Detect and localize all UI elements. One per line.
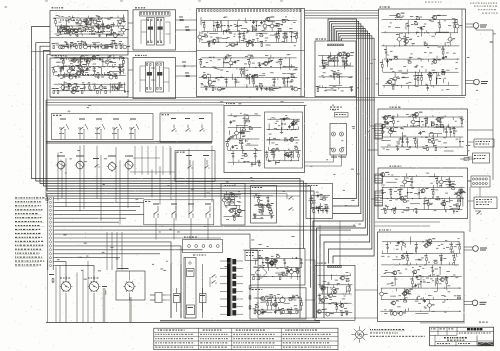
resistor R45 bbox=[208, 43, 210, 47]
resistor R162 bbox=[295, 271, 299, 273]
wire drop bbox=[61, 161, 63, 198]
transistor Q40 bbox=[211, 39, 216, 43]
switch box 'MONITOR' bbox=[175, 151, 215, 182]
transistor Q54 bbox=[454, 20, 459, 33]
resistor R175 bbox=[336, 303, 338, 312]
transistor Q100 bbox=[392, 311, 397, 316]
capacitor C88 bbox=[262, 310, 264, 314]
diode D6 bbox=[86, 58, 88, 67]
wire input run bbox=[55, 242, 171, 318]
wire bbox=[284, 302, 290, 304]
capacitor C61 bbox=[384, 117, 386, 127]
wire bbox=[255, 204, 265, 206]
resistor R167 bbox=[275, 298, 277, 310]
capacitor C76 bbox=[234, 212, 237, 216]
wire bbox=[402, 254, 404, 260]
wire bundle bbox=[328, 19, 357, 97]
wire bbox=[305, 260, 315, 265]
transistor Q5 bbox=[92, 18, 97, 26]
transistor Q19 bbox=[122, 45, 127, 49]
wire bbox=[151, 68, 155, 80]
resistor R170 bbox=[301, 298, 303, 310]
transistor Q3 bbox=[69, 26, 74, 34]
pcb board box U4 'P.C.B ASS'Y' (flat amp L/R) bbox=[197, 9, 305, 97]
pcb box U10 'P.C.B #0114' bbox=[221, 184, 245, 226]
resistor R65 bbox=[253, 77, 255, 87]
rail wire bbox=[381, 287, 461, 289]
transistor Q95 bbox=[339, 304, 344, 308]
capacitor C31 bbox=[234, 60, 237, 64]
diode D25 bbox=[293, 119, 295, 129]
resistor R104 bbox=[244, 155, 248, 157]
transistor Q36 bbox=[230, 43, 235, 48]
resistor R149 bbox=[311, 196, 313, 209]
capacitor C55 bbox=[283, 118, 286, 122]
rail wire bbox=[253, 276, 301, 278]
wire bbox=[468, 180, 472, 182]
capacitor C12 bbox=[97, 76, 99, 80]
wire feedback L1 bbox=[32, 27, 301, 319]
resistor R_link3 bbox=[185, 73, 189, 77]
wire bbox=[429, 132, 442, 134]
resistor R97 bbox=[291, 150, 293, 160]
resistor R174 bbox=[322, 285, 324, 294]
pcb box U13 (regulator) bbox=[315, 265, 355, 320]
wire bbox=[389, 14, 397, 16]
rail wire bbox=[381, 32, 458, 34]
wire bbox=[468, 130, 494, 180]
transistor Q69 bbox=[380, 124, 385, 128]
wire drop bbox=[100, 155, 102, 221]
wire bbox=[166, 295, 171, 300]
wire bbox=[231, 74, 233, 80]
capacitor C94 bbox=[293, 295, 296, 299]
resistor R52 bbox=[296, 32, 298, 43]
rail wire bbox=[382, 187, 465, 189]
wire bbox=[410, 125, 418, 127]
resistor R40 bbox=[114, 84, 116, 91]
resistor R156 bbox=[279, 277, 281, 281]
box SPEAKER SYSTEM bbox=[474, 197, 497, 209]
resistor R_bl2 bbox=[102, 286, 107, 295]
wire bbox=[375, 221, 440, 223]
wire bbox=[443, 125, 445, 132]
wire drop bbox=[134, 146, 136, 175]
label band bbox=[58, 74, 112, 75]
capacitor C85 bbox=[284, 259, 286, 268]
terminal J7 bbox=[49, 205, 55, 208]
rail wire bbox=[53, 17, 123, 19]
resistor R_link2 bbox=[185, 27, 189, 31]
rail wire bbox=[228, 115, 261, 117]
transistor Q42 bbox=[207, 77, 212, 87]
transistor Q1 bbox=[57, 26, 62, 34]
input label bbox=[15, 264, 41, 266]
rail wire bbox=[318, 284, 352, 286]
wire bbox=[402, 72, 408, 74]
rail wire bbox=[318, 311, 352, 313]
wire bbox=[65, 73, 75, 75]
transistor Q6 bbox=[112, 34, 117, 38]
wire bundle bbox=[333, 26, 363, 97]
resistor R92 bbox=[414, 23, 418, 25]
terminal J22 bbox=[49, 264, 55, 267]
wire drop bbox=[119, 160, 121, 224]
pcb board box U1b 'P.C.B #001B' (equalizer amp R) bbox=[50, 58, 128, 97]
capacitor C10 bbox=[60, 67, 62, 76]
pcb box U11 'P.C.B ASS'Y' (protection 1) bbox=[251, 249, 306, 286]
capacitor C92 bbox=[274, 310, 277, 314]
capacitor C59 bbox=[230, 121, 233, 125]
resistor R193 bbox=[403, 301, 407, 303]
transistor Q98 bbox=[320, 299, 325, 303]
transistor Q23 bbox=[104, 58, 109, 67]
label bbox=[252, 250, 263, 251]
bottom rail 2a bbox=[160, 320, 320, 322]
capacitor C91 bbox=[290, 310, 292, 315]
rail wire bbox=[319, 76, 353, 78]
diode D14 bbox=[255, 21, 257, 32]
capacitor C32 bbox=[268, 60, 271, 64]
wire fan bbox=[329, 97, 372, 264]
rail wire bbox=[269, 149, 301, 151]
resistor R75 bbox=[322, 62, 326, 64]
resistor R24 bbox=[119, 67, 121, 76]
diode D13 bbox=[236, 21, 238, 32]
power transistor Q_OR1 bbox=[464, 246, 487, 252]
rail wire bbox=[381, 276, 462, 278]
transistor Q57 bbox=[432, 60, 437, 64]
resistor R54 bbox=[204, 36, 208, 38]
resistor R138 bbox=[234, 217, 236, 222]
resistor R114 bbox=[427, 147, 429, 151]
transistor Q39 bbox=[265, 17, 270, 21]
resistor R63 bbox=[243, 68, 245, 78]
wire bbox=[381, 179, 383, 186]
bus wire inside U1 bbox=[50, 37, 128, 39]
transistor Q26 bbox=[77, 65, 82, 69]
label bbox=[226, 103, 235, 104]
transistor Q10 bbox=[65, 30, 70, 34]
wire bbox=[268, 21, 274, 23]
capacitor C58 bbox=[228, 137, 231, 141]
label QUAD-PHONE bbox=[330, 107, 342, 110]
wire bbox=[331, 274, 333, 280]
capacitor C25 bbox=[205, 87, 207, 91]
resistor R61 bbox=[212, 87, 214, 91]
resistor R121 bbox=[431, 124, 435, 126]
wire drop bbox=[127, 159, 129, 208]
wire bbox=[443, 79, 445, 83]
wire bbox=[344, 60, 346, 68]
title model text bbox=[444, 337, 467, 341]
transistor Q107 bbox=[402, 291, 407, 295]
wire bbox=[444, 42, 446, 47]
wire bbox=[395, 16, 403, 18]
resistor R89 bbox=[394, 58, 398, 60]
wire drop bbox=[121, 232, 123, 270]
resistor R110 bbox=[382, 127, 384, 137]
rotary wafer SW_B (rec selector R) bbox=[88, 276, 101, 323]
wire bbox=[319, 203, 321, 210]
wire bbox=[256, 32, 268, 34]
wire to J7 bbox=[373, 130, 376, 132]
transistor Q13 bbox=[105, 25, 110, 29]
rotary selector SWSW4 bbox=[112, 119, 122, 140]
resistor R30 bbox=[107, 74, 111, 76]
capacitor C78 bbox=[267, 196, 269, 206]
capacitor C26 bbox=[225, 77, 227, 87]
rotary switch SWSW12 bbox=[124, 156, 135, 171]
resistor R88 bbox=[424, 44, 428, 46]
diode D32 bbox=[423, 199, 425, 210]
rail wire bbox=[201, 31, 296, 33]
wire bbox=[208, 77, 210, 86]
wire fan bbox=[313, 97, 363, 318]
pin connector J8 bbox=[375, 174, 383, 183]
relay transistor bbox=[280, 297, 285, 302]
capacitor C6 bbox=[60, 25, 63, 29]
resistor R136 bbox=[451, 188, 455, 190]
wire bbox=[386, 181, 397, 183]
resistor R165 bbox=[267, 298, 269, 310]
diode D38 bbox=[420, 277, 422, 289]
transistor Q76 bbox=[440, 202, 445, 206]
lever switch SWSW14 bbox=[186, 155, 193, 169]
capacitor C54 bbox=[292, 122, 295, 126]
wire drop bbox=[65, 158, 67, 207]
wire drop bbox=[207, 218, 209, 240]
capacitor C68 bbox=[419, 131, 422, 135]
capacitor C64 bbox=[406, 137, 408, 147]
resistor R18 bbox=[111, 42, 115, 44]
pcb board box U8 'P.C.B ASS'Y' (driver board R upper) bbox=[378, 109, 468, 156]
capacitor C40 bbox=[342, 55, 344, 66]
terminal J20 bbox=[49, 256, 55, 259]
wire bbox=[339, 76, 341, 85]
wire bbox=[331, 302, 337, 304]
wire bbox=[63, 81, 65, 91]
jack J2 bbox=[340, 132, 344, 136]
wire drop bbox=[106, 232, 108, 270]
label AMP L bbox=[60, 278, 70, 279]
transistor Q108 bbox=[423, 244, 428, 248]
rail wire bbox=[380, 310, 461, 312]
wire fan bbox=[320, 97, 368, 288]
resistor R118 bbox=[461, 117, 463, 127]
diode D26 bbox=[240, 127, 242, 139]
pcb board box U3 'P.C.B #030' (tone defeat switches) bbox=[133, 58, 176, 99]
wire drop bbox=[116, 232, 118, 270]
diode D4 bbox=[97, 45, 99, 49]
capacitor C5 bbox=[110, 32, 113, 36]
wire bbox=[450, 207, 459, 209]
wire bundle bbox=[340, 36, 372, 97]
wire bbox=[176, 75, 197, 77]
transistor Q78 bbox=[399, 196, 404, 200]
fuse F1 bbox=[460, 158, 475, 160]
page mark bbox=[5, 7, 8, 8]
label P.C.B #001A bbox=[52, 7, 64, 8]
wire drop bbox=[173, 218, 175, 240]
terminal J9 bbox=[49, 213, 55, 216]
power sw box bbox=[183, 237, 223, 253]
jack block J2 (headphones) bbox=[330, 124, 347, 156]
wire bbox=[270, 34, 276, 36]
rail wire bbox=[381, 45, 459, 47]
resistor R113 bbox=[425, 117, 427, 127]
wire input run bbox=[55, 209, 136, 211]
diode D12 bbox=[227, 21, 229, 32]
wire bbox=[240, 142, 242, 149]
diode D2 bbox=[70, 45, 72, 49]
AC line filter column bbox=[184, 255, 206, 319]
terminal box SPEAKER A bbox=[474, 139, 494, 147]
capacitor C81 bbox=[316, 206, 319, 210]
rail wire bbox=[55, 75, 126, 77]
lever switch SWSW17 bbox=[171, 204, 177, 219]
wire input run bbox=[55, 205, 140, 207]
bridge rectifier BR2 bbox=[255, 267, 267, 279]
pcb board box U14 'P.C.B ASS'Y' (power amp front) bbox=[378, 232, 465, 322]
resistor R155 bbox=[274, 259, 276, 268]
value labels bbox=[251, 254, 302, 280]
resistor R8 bbox=[82, 29, 86, 31]
capacitor C24 bbox=[225, 29, 228, 33]
value labels bbox=[381, 238, 461, 314]
pcb board box U9 'P.C.B ASS'Y' (driver board R lower) bbox=[378, 168, 468, 219]
wire fan bbox=[324, 97, 370, 318]
rail wire bbox=[54, 83, 126, 85]
resistor R116 bbox=[435, 147, 437, 151]
resistor R107 bbox=[246, 120, 250, 122]
box FILTER (MAIN) bbox=[306, 184, 333, 219]
resistor R157 bbox=[286, 268, 288, 277]
rotary switch SWSW10 bbox=[75, 156, 86, 171]
transistor Q99 bbox=[379, 288, 384, 300]
pcb board box U6 'P.C.B ASS'Y' (power amp L) bbox=[379, 9, 466, 96]
resistor R196 bbox=[427, 244, 431, 246]
resistor R191 bbox=[457, 297, 461, 299]
wire input run bbox=[55, 198, 144, 200]
capacitor C62 bbox=[397, 147, 399, 151]
terminal J12 bbox=[49, 225, 55, 228]
resistor R130 bbox=[436, 177, 438, 188]
capacitor C56 bbox=[232, 151, 234, 163]
resistor R188 bbox=[451, 242, 453, 254]
title vendor line bbox=[459, 333, 491, 334]
wire drop bbox=[155, 146, 157, 175]
bus wire AB2 bbox=[46, 99, 375, 101]
lever switch SWSW19 bbox=[205, 204, 211, 219]
wire input run bbox=[55, 262, 66, 282]
capacitor C95 bbox=[319, 294, 321, 303]
wire bbox=[119, 65, 121, 70]
wire bbox=[449, 197, 451, 203]
rotary selector SWSW2 bbox=[78, 119, 88, 140]
diode D22 bbox=[275, 161, 277, 165]
wire bbox=[429, 176, 440, 178]
wire bbox=[234, 197, 236, 205]
switch contacts (transformer tap) bbox=[210, 274, 217, 287]
pcb board box U2 'P.C.B #029' (filter switches) bbox=[133, 10, 176, 50]
wire bbox=[236, 124, 248, 126]
capacitor C16 bbox=[83, 84, 85, 91]
wire bbox=[401, 77, 409, 79]
label band bbox=[60, 31, 110, 32]
rail wire bbox=[224, 194, 241, 196]
resistor R128 bbox=[428, 199, 430, 210]
wire bbox=[334, 73, 336, 80]
transistor Q7 bbox=[117, 18, 122, 26]
transistor Q53 bbox=[447, 33, 452, 46]
transistor Q41 bbox=[247, 40, 252, 44]
wire bbox=[381, 139, 391, 141]
capacitor C82 bbox=[318, 206, 321, 210]
transistor Q4 bbox=[77, 18, 82, 26]
wire bbox=[468, 180, 472, 182]
resistor R26 bbox=[73, 59, 77, 61]
wire drop bbox=[162, 146, 164, 175]
transistor Q16 bbox=[82, 45, 87, 49]
capacitor C3 bbox=[98, 34, 100, 37]
wire bbox=[63, 66, 65, 71]
rail wire bbox=[382, 241, 460, 243]
wire bbox=[305, 299, 315, 301]
value labels bbox=[380, 112, 464, 150]
transistor Q45 bbox=[268, 87, 273, 91]
diode D28 bbox=[418, 117, 420, 127]
resistor R77 bbox=[344, 63, 348, 65]
title block frame bbox=[430, 327, 494, 346]
capacitor C98 bbox=[387, 242, 389, 254]
resistor R56 bbox=[217, 26, 221, 28]
transistor Q105 bbox=[427, 239, 432, 243]
wire bbox=[56, 26, 58, 32]
ref JS-0107 bbox=[420, 322, 488, 323]
wire feedback L2 bbox=[36, 43, 304, 249]
resistor R106 bbox=[241, 132, 245, 134]
rail wire bbox=[381, 299, 461, 301]
resistor R73 bbox=[317, 88, 319, 92]
value labels bbox=[52, 40, 130, 48]
resistor R7 bbox=[64, 28, 68, 30]
wire bbox=[101, 20, 103, 27]
capacitor C86 bbox=[300, 259, 302, 268]
capacitor C29 bbox=[273, 77, 275, 87]
transistor Q50 bbox=[337, 52, 342, 56]
resistor R108 bbox=[242, 129, 246, 131]
terminal J16 bbox=[49, 241, 55, 244]
wire bbox=[242, 146, 244, 154]
rotary selector SWSW1 bbox=[59, 119, 69, 140]
transistor Q94 bbox=[339, 276, 344, 280]
label row bbox=[60, 59, 100, 60]
value labels bbox=[381, 172, 466, 213]
capacitor C47 bbox=[414, 72, 416, 85]
transistor Q33 bbox=[98, 84, 103, 91]
label bbox=[390, 166, 402, 167]
transistor Q49 bbox=[345, 53, 350, 57]
capacitor C_link1 bbox=[182, 62, 186, 68]
transistor Q96 bbox=[327, 294, 332, 298]
resistor R95 bbox=[266, 150, 268, 160]
transistor Q20 bbox=[66, 67, 71, 76]
resistor R76 bbox=[333, 73, 337, 75]
wire bottom bus bbox=[258, 317, 378, 319]
wire bundle bbox=[342, 38, 375, 97]
wire run bbox=[47, 193, 260, 195]
